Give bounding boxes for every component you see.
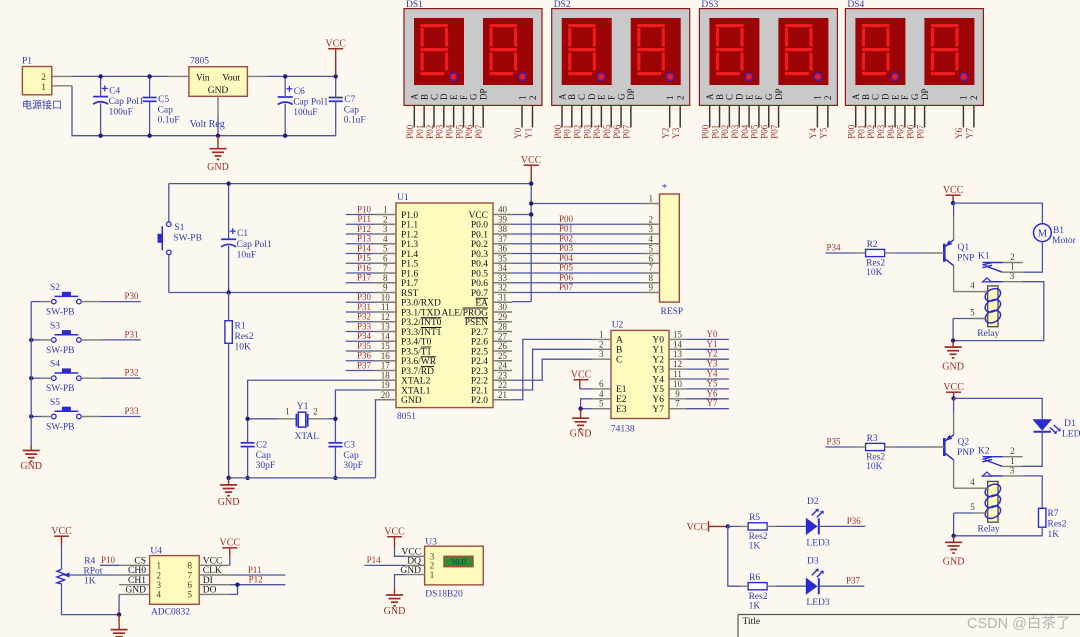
wire VCC to U3 pin3: [394, 537, 396, 547]
resistor R7 body: [1039, 508, 1046, 527]
svg-text:P11: P11: [248, 565, 262, 575]
pin R2 left: [856, 252, 866, 254]
title block border: [738, 614, 1080, 616]
svg-text:2: 2: [41, 73, 46, 83]
svg-text:VCC: VCC: [686, 522, 707, 533]
svg-text:Res2: Res2: [1048, 520, 1067, 530]
wire net P32 to U1: [346, 321, 375, 323]
wire VCC stem at U1: [530, 165, 532, 183]
wire R4 bottom to ground: [62, 584, 120, 615]
svg-text:P30: P30: [357, 292, 372, 302]
svg-text:P00: P00: [553, 124, 563, 139]
DS2 pin B: [571, 105, 573, 127]
wire C6 top: [284, 76, 286, 97]
svg-text:P02: P02: [559, 233, 573, 243]
svg-text:P03: P03: [582, 124, 592, 139]
junction crystal left: [245, 417, 249, 421]
ground at U2: [580, 409, 582, 419]
svg-text:100uF: 100uF: [293, 108, 317, 118]
junction ground rail S4: [29, 376, 33, 380]
svg-text:P35: P35: [827, 436, 842, 446]
svg-text:U3: U3: [425, 537, 437, 547]
wire net Y1: [686, 348, 729, 350]
pin 7805 Vin: [169, 75, 189, 77]
wire P1 pin1 down to bottom rail: [72, 86, 101, 136]
U1 pin 40 VCC: [493, 214, 512, 216]
svg-text:VCC: VCC: [203, 557, 223, 567]
DS3 pin DP: [778, 105, 780, 127]
svg-text:DP: DP: [920, 88, 930, 100]
DS4 digit 2: [924, 18, 974, 85]
svg-text:A: A: [410, 93, 420, 100]
svg-text:Res2: Res2: [866, 259, 885, 269]
wire K1 pin3 to ground rail: [953, 282, 1044, 341]
DS3 digit 1: [709, 18, 759, 85]
svg-text:5: 5: [648, 244, 653, 254]
RESP pin 7: [642, 272, 660, 274]
capacitor C4 plates: [93, 96, 108, 98]
DS4 pin A: [855, 105, 857, 127]
DS2 pin E: [600, 105, 602, 127]
svg-text:G: G: [764, 93, 774, 100]
wire EA to VCC: [512, 301, 531, 303]
svg-text:Cap Pol1: Cap Pol1: [293, 98, 328, 108]
svg-text:P01: P01: [710, 125, 720, 139]
capacitor C5 plates: [143, 97, 157, 99]
svg-text:P2.7: P2.7: [471, 328, 488, 338]
svg-text:Y4: Y4: [808, 127, 818, 138]
svg-text:P35: P35: [357, 341, 372, 351]
wire net P35 to U1: [346, 350, 375, 352]
relay K2 contact arm: [982, 457, 1002, 467]
junction K1 ground: [951, 338, 955, 342]
wire R5 to D2: [776, 525, 806, 527]
svg-text:Res2: Res2: [749, 592, 768, 602]
svg-text:25: 25: [498, 351, 508, 361]
svg-text:P00: P00: [559, 214, 574, 224]
wire K2 pin5 down: [953, 513, 955, 536]
svg-text:P01: P01: [563, 125, 573, 139]
pin K1 coil 4: [973, 291, 988, 293]
svg-text:GND: GND: [207, 162, 229, 173]
sensor U3 DS18B20 body: [425, 546, 484, 585]
svg-text:PNP: PNP: [957, 448, 974, 458]
resistor R5 body: [748, 523, 767, 530]
U2 pin 4 E2: [592, 398, 612, 400]
svg-text:P1.3: P1.3: [401, 240, 418, 250]
junction DI DO: [235, 583, 239, 587]
U1 pin 38 P0.1: [493, 233, 512, 235]
ground below crystal: [228, 478, 230, 485]
svg-text:1: 1: [285, 407, 290, 417]
wire net P36 to U1: [346, 360, 375, 362]
svg-text:E3: E3: [616, 405, 627, 415]
U1 pin 7 P1.6: [375, 272, 396, 274]
svg-text:6: 6: [599, 379, 604, 389]
svg-text:Y6: Y6: [652, 395, 664, 405]
resistor R2 body: [866, 249, 885, 256]
svg-text:P1: P1: [22, 57, 32, 67]
resistor R3 body: [866, 443, 885, 450]
U1 overline EA: [476, 297, 489, 299]
bottom ground rail: [101, 135, 336, 137]
resistor R6 body: [748, 583, 767, 590]
svg-text:E: E: [597, 94, 607, 100]
wire net P34 to R2: [825, 252, 855, 254]
wire P03 net: [512, 253, 642, 255]
DS1 pin 2: [532, 105, 534, 127]
pin R5 left: [740, 525, 748, 527]
svg-text:B: B: [616, 346, 622, 356]
wire net Y6: [686, 398, 729, 400]
pin 7805 Vout: [247, 75, 267, 77]
svg-text:2: 2: [157, 570, 162, 580]
wire Q2 to K2 coil pin4: [954, 487, 973, 489]
junction D2 rail: [726, 524, 730, 528]
wire C1 top: [228, 184, 230, 240]
RESP pin 8: [642, 282, 660, 284]
U1 pin 27 P2.6: [493, 340, 512, 342]
wire P02 net: [512, 243, 642, 245]
wire R6 to D3: [776, 585, 806, 587]
svg-text:Y0: Y0: [513, 127, 523, 138]
svg-text:1: 1: [1010, 456, 1015, 466]
DS4 pin C: [874, 105, 876, 127]
svg-text:36: 36: [498, 244, 508, 254]
wire P01 net: [512, 233, 642, 235]
LED D2: [806, 518, 818, 535]
svg-text:D3: D3: [807, 557, 819, 567]
svg-text:P01: P01: [415, 125, 425, 139]
wire C4 bottom: [100, 103, 102, 135]
svg-text:Cap Pol1: Cap Pol1: [109, 97, 144, 107]
svg-text:P04: P04: [886, 124, 896, 139]
DS3 pin D: [738, 105, 740, 127]
svg-text:SW-PB: SW-PB: [173, 234, 202, 244]
svg-text:S4: S4: [50, 360, 60, 370]
U1 pin 3 P1.2: [375, 233, 396, 235]
svg-text:P03: P03: [876, 124, 886, 139]
wire C5 bottom: [149, 101, 151, 135]
svg-text:P1.6: P1.6: [401, 269, 418, 279]
svg-text:CLK: CLK: [203, 566, 222, 576]
junction reset node: [226, 290, 230, 294]
U3 pin 3 VCC: [406, 555, 425, 557]
DS4 pin DP: [924, 105, 926, 127]
svg-text:34: 34: [498, 263, 508, 273]
wire P1 pin2 to 7805 Vin: [72, 75, 169, 77]
svg-text:XTAL1: XTAL1: [401, 386, 431, 396]
svg-text:Y7: Y7: [707, 398, 718, 408]
svg-text:K2: K2: [978, 446, 990, 456]
svg-text:1: 1: [41, 83, 46, 93]
junction VCC rail: [529, 181, 533, 185]
wire net Y5: [686, 388, 729, 390]
svg-text:74138: 74138: [611, 425, 635, 435]
RESP pin 9: [642, 292, 660, 294]
wire D1 to K2 pin1: [1023, 432, 1043, 467]
svg-text:P3.4/T0: P3.4/T0: [401, 338, 432, 348]
svg-text:Res2: Res2: [749, 532, 768, 542]
svg-text:R2: R2: [867, 240, 878, 250]
svg-text:ALE/PROG: ALE/PROG: [442, 308, 489, 318]
wire U1 P2.1 to U2 B: [512, 349, 592, 390]
junction E3 ground: [578, 407, 582, 411]
svg-text:P0.0: P0.0: [471, 221, 488, 231]
svg-text:P30: P30: [124, 291, 139, 301]
svg-text:P3.2/INT0: P3.2/INT0: [401, 318, 442, 328]
DS2 pin A: [561, 105, 563, 127]
svg-text:P02: P02: [425, 125, 435, 139]
U2 pin 9 Y6: [669, 398, 686, 400]
svg-text:DS2: DS2: [554, 0, 571, 10]
svg-text:GND: GND: [20, 461, 42, 472]
svg-text:5: 5: [188, 590, 193, 600]
svg-text:18: 18: [381, 370, 391, 380]
U1 pin 31 EA: [493, 301, 512, 303]
junction VCC Q2: [951, 396, 955, 400]
wire S5 to ground rail: [41, 416, 52, 418]
svg-text:R7: R7: [1048, 509, 1059, 519]
wire net P17 to U1: [346, 282, 375, 284]
svg-text:P01: P01: [856, 125, 866, 139]
svg-text:1: 1: [430, 570, 435, 580]
svg-text:P05: P05: [454, 124, 464, 139]
RESP pin 5: [642, 253, 660, 255]
svg-text:38: 38: [498, 224, 508, 234]
wire crystal ground rail: [229, 477, 376, 479]
svg-text:P05: P05: [750, 124, 760, 139]
wire net P30 to U1: [346, 301, 375, 303]
U2 pin 7 Y7: [669, 408, 686, 410]
wire Q2 collector down: [953, 460, 955, 488]
svg-text:RST: RST: [401, 289, 419, 299]
pin R2 right: [885, 252, 894, 254]
svg-text:VCC: VCC: [943, 185, 964, 196]
svg-text:P31: P31: [357, 302, 371, 312]
svg-text:Relay: Relay: [978, 525, 1000, 535]
svg-text:11: 11: [673, 369, 682, 379]
svg-text:P02: P02: [572, 125, 582, 139]
svg-text:P07: P07: [915, 124, 925, 139]
svg-text:P2.1: P2.1: [471, 386, 488, 396]
pin R3 left: [856, 446, 866, 448]
wire Q1 emitter to VCC: [953, 203, 955, 217]
svg-text:P0.2: P0.2: [471, 240, 488, 250]
svg-text:C: C: [429, 94, 439, 100]
DS2 pin G: [620, 105, 622, 127]
wire U1 P2.2 to U2 C: [512, 359, 592, 380]
DS2 digit 2: [631, 18, 681, 85]
wire VCC stem Q1: [952, 195, 954, 203]
svg-text:C4: C4: [109, 86, 120, 96]
svg-text:7: 7: [675, 399, 680, 409]
DS3 pin B: [719, 105, 721, 127]
wire R4 wiper to U4 CH0: [70, 574, 120, 576]
svg-text:K1: K1: [978, 252, 990, 262]
svg-text:P14: P14: [367, 555, 382, 565]
relay K1 contact arm: [982, 263, 1002, 273]
svg-text:C7: C7: [344, 95, 355, 105]
svg-text:S1: S1: [174, 223, 184, 233]
ground below U3: [394, 588, 396, 595]
junction C7 top: [334, 74, 338, 78]
svg-text:P10: P10: [101, 555, 116, 565]
wire S2 to net P30: [81, 301, 101, 303]
junction K2 ground: [951, 534, 955, 538]
DS1 pin 1: [521, 105, 523, 127]
wire E3 to ground node: [581, 408, 592, 410]
ground below U4: [118, 615, 120, 630]
svg-text:F: F: [754, 95, 764, 100]
svg-text:4: 4: [599, 389, 604, 399]
wire net P16 to U1: [346, 272, 375, 274]
svg-text:1: 1: [1010, 262, 1015, 272]
svg-text:Y3: Y3: [707, 359, 718, 369]
svg-text:10: 10: [673, 379, 683, 389]
svg-text:A: A: [557, 93, 567, 100]
junction VCC Q1: [951, 201, 955, 205]
U2 pin 1 A: [592, 338, 612, 340]
svg-text:S3: S3: [50, 321, 60, 331]
svg-text:6: 6: [383, 253, 388, 263]
DS3 pin C: [728, 105, 730, 127]
svg-text:Cap: Cap: [256, 451, 272, 461]
svg-text:P13: P13: [357, 234, 372, 244]
svg-text:10K: 10K: [866, 462, 883, 472]
svg-text:Y7: Y7: [965, 127, 975, 138]
svg-text:37: 37: [498, 234, 508, 244]
svg-text:D: D: [587, 93, 597, 100]
DS4 pin F: [904, 105, 906, 127]
capacitor C1 plates: [221, 238, 236, 240]
svg-text:P1.5: P1.5: [401, 260, 418, 270]
svg-text:9: 9: [675, 389, 680, 399]
svg-text:P03: P03: [730, 124, 740, 139]
DS3 pin E: [748, 105, 750, 127]
svg-text:1: 1: [959, 96, 969, 101]
svg-text:P31: P31: [124, 329, 138, 339]
svg-text:33: 33: [498, 273, 508, 283]
wire net Y0: [686, 338, 729, 340]
svg-text:E1: E1: [616, 385, 627, 395]
wire VCC stem: [335, 49, 337, 77]
wire C7 top: [335, 76, 337, 97]
svg-text:G: G: [616, 93, 626, 100]
wire R1 to ground rail: [228, 343, 230, 478]
ground at K2: [953, 536, 955, 543]
7-segment display DS3: [699, 9, 837, 106]
junction C6 bottom: [283, 134, 287, 138]
switch S4 SW-PB: [52, 376, 57, 381]
svg-text:Y2: Y2: [652, 356, 664, 366]
svg-text:LED3: LED3: [806, 598, 829, 608]
op-amp U1 8051 body: [396, 203, 493, 408]
ground at K1: [952, 341, 954, 348]
svg-text:16: 16: [381, 351, 391, 361]
wire VCC to U4 pin8: [229, 548, 231, 557]
svg-text:P2.5: P2.5: [471, 347, 488, 357]
U1 overline RD: [421, 366, 434, 368]
svg-text:15: 15: [673, 329, 683, 339]
junction ground rail S3: [29, 338, 33, 342]
svg-text:DP: DP: [626, 88, 636, 100]
DS1 pin G: [472, 105, 474, 127]
svg-text:6: 6: [648, 253, 653, 263]
svg-text:8: 8: [648, 273, 653, 283]
wire D2 to net P36: [819, 525, 866, 527]
U1 pin 16 P3.6/WR: [375, 360, 396, 362]
junction C5 bottom: [147, 134, 151, 138]
svg-text:P12: P12: [357, 224, 371, 234]
svg-text:3: 3: [599, 349, 604, 359]
svg-text:P06: P06: [559, 272, 574, 282]
svg-text:2: 2: [528, 96, 538, 101]
U3 green display 30.0: [444, 556, 473, 566]
svg-text:Vout: Vout: [222, 74, 240, 84]
RESP pin 1: [642, 203, 660, 205]
svg-text:R4: R4: [84, 557, 95, 567]
wire to R5: [728, 525, 740, 527]
junction ground rail S5: [29, 414, 33, 418]
DS1 pin A: [413, 105, 415, 127]
junction C4 bottom: [98, 134, 102, 138]
svg-text:22: 22: [498, 380, 507, 390]
DS4 digit 1: [855, 18, 905, 85]
7-segment display DS1: [404, 9, 542, 106]
svg-text:10K: 10K: [235, 343, 252, 353]
U4 pin 6 DI: [199, 584, 230, 586]
svg-text:Y4: Y4: [652, 375, 664, 385]
svg-text:P2.2: P2.2: [471, 377, 488, 387]
svg-text:2: 2: [599, 339, 604, 349]
svg-text:DO: DO: [203, 586, 217, 596]
wire net Y2: [686, 358, 729, 360]
pin R6 right: [767, 585, 776, 587]
svg-text:VCC: VCC: [468, 211, 488, 221]
svg-text:SW-PB: SW-PB: [46, 423, 75, 433]
svg-text:P14: P14: [357, 243, 372, 253]
wire net P10 to U1: [346, 214, 375, 216]
svg-text:23: 23: [498, 370, 508, 380]
svg-text:CS: CS: [134, 557, 146, 567]
svg-text:P0.1: P0.1: [471, 230, 488, 240]
DS3 digit 2: [778, 18, 828, 85]
svg-text:31: 31: [498, 292, 507, 302]
svg-text:P00: P00: [701, 124, 711, 139]
svg-text:30pF: 30pF: [343, 461, 363, 471]
svg-text:15: 15: [381, 341, 391, 351]
svg-text:13: 13: [673, 349, 683, 359]
LED D3: [806, 578, 818, 595]
U4 pin 8 VCC: [199, 564, 230, 566]
wire Q2 emitter to VCC: [953, 398, 955, 412]
svg-text:Motor: Motor: [1052, 236, 1077, 246]
svg-text:PSEN: PSEN: [465, 318, 488, 328]
svg-text:14: 14: [381, 331, 391, 341]
svg-text:Y0: Y0: [707, 329, 718, 339]
svg-text:100uF: 100uF: [109, 108, 133, 118]
pin P1.1: [52, 85, 72, 87]
U2 pin 11 Y4: [669, 378, 686, 380]
svg-text:P04: P04: [559, 253, 574, 263]
DS2 digit 1: [562, 18, 612, 85]
svg-text:1: 1: [157, 561, 162, 571]
svg-text:3: 3: [1010, 271, 1015, 281]
svg-text:1: 1: [383, 205, 388, 215]
svg-text:M: M: [1038, 229, 1048, 240]
svg-text:39: 39: [498, 214, 508, 224]
